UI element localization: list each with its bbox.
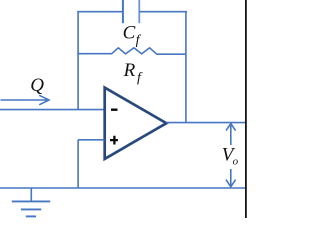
svg-text:f: f bbox=[137, 70, 143, 85]
wire: top feedback, left segment to capacitor bbox=[77, 11, 123, 13]
resistor R_f (zigzag) with leads bbox=[77, 48, 186, 54]
op-amp inverting pin mark (-) bbox=[111, 109, 118, 111]
wire: ground rail along bottom bbox=[0, 187, 245, 189]
label V_o (white plate breaks the arrow line) bbox=[220, 145, 240, 169]
ground symbol bbox=[30, 188, 32, 201]
capacitor C_f plates bbox=[122, 0, 124, 23]
wire: non-inverting input down to ground rail bbox=[77, 140, 79, 188]
wire: top feedback, right segment from capacitor bbox=[139, 11, 187, 13]
svg-text:f: f bbox=[136, 33, 142, 48]
node A: input summing junction vertical wire up to feedback bbox=[77, 12, 79, 110]
svg-text:R: R bbox=[123, 60, 136, 81]
svg-text:o: o bbox=[233, 155, 239, 167]
wire: inverting input line from left edge to op-amp bbox=[0, 109, 105, 111]
arrow: V_o measurement (up arrowhead, line, down arrowhead) bbox=[226, 124, 236, 187]
frame border (right) bbox=[245, 0, 247, 218]
arrow: input current direction Q bbox=[1, 95, 50, 105]
op-amp U1 triangle bbox=[105, 88, 167, 159]
op-amp non-inverting pin mark (+) bbox=[110, 136, 118, 145]
svg-text:C: C bbox=[123, 23, 136, 44]
svg-text:Q: Q bbox=[30, 75, 44, 96]
wire: output from op-amp to right edge bbox=[166, 122, 245, 124]
wire: right feedback vertical down to output node bbox=[185, 12, 187, 123]
wire: non-inverting input bbox=[78, 139, 104, 141]
